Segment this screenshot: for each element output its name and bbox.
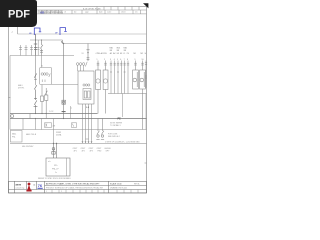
lower horizontal rail bbox=[10, 129, 147, 131]
branch feeder b3 bbox=[117, 61, 119, 94]
svg-text:4P2: 4P2 bbox=[82, 150, 85, 152]
svg-text:3W: 3W bbox=[124, 50, 127, 52]
right feeder labels bbox=[96, 47, 147, 61]
svg-text:DRAWING NO E-401: DRAWING NO E-401 bbox=[110, 186, 127, 189]
junction box JB2 bbox=[72, 123, 77, 128]
svg-text:rev: rev bbox=[135, 12, 138, 14]
switch S0 on column M1 bbox=[34, 73, 37, 79]
frame tick right bbox=[145, 162, 147, 164]
svg-text:4TH FL: 4TH FL bbox=[18, 88, 24, 90]
svg-text:2: 2 bbox=[104, 59, 105, 61]
bus C (right secondary) bbox=[63, 43, 147, 45]
main feeder column M1 bbox=[34, 34, 37, 56]
svg-text:45kVA: 45kVA bbox=[56, 134, 62, 137]
switch S1 on column M1 bbox=[34, 85, 38, 113]
sheet frame bbox=[9, 7, 147, 194]
svg-text:REV A: REV A bbox=[134, 182, 140, 185]
svg-text:M2: M2 bbox=[141, 53, 143, 55]
feeder column M2 with switch bbox=[40, 40, 43, 56]
branch feeder b5 bbox=[123, 61, 125, 94]
svg-text:M1: M1 bbox=[134, 53, 136, 55]
svg-text:P4: P4 bbox=[127, 53, 129, 55]
svg-text:480-120/208V: 480-120/208V bbox=[22, 146, 34, 148]
meter on riser R1 bbox=[62, 100, 66, 104]
top-left incoming stub bbox=[17, 26, 19, 34]
transformer T1 box bbox=[40, 56, 52, 85]
P2 output wires bbox=[83, 104, 92, 143]
riser drops bbox=[23, 114, 54, 144]
fuse FU2 bbox=[45, 88, 48, 114]
panel LP box bbox=[46, 158, 70, 176]
svg-text:A 1B LEVEL PLAN: A 1B LEVEL PLAN bbox=[83, 7, 101, 10]
svg-text:3Ph: 3Ph bbox=[54, 165, 57, 167]
svg-text:MA-1 PNL-B: MA-1 PNL-B bbox=[26, 133, 37, 136]
wire M1 vertical bbox=[35, 56, 37, 86]
svg-text:ch: ch bbox=[64, 12, 66, 14]
panel enclosure top edge bbox=[10, 55, 74, 57]
bus B (left secondary) bbox=[30, 39, 63, 41]
svg-text:amre: amre bbox=[16, 185, 22, 187]
svg-text:PDF: PDF bbox=[8, 9, 30, 21]
motor feeder MC1 bbox=[96, 61, 101, 114]
bus N bbox=[10, 113, 98, 115]
svg-text:T1: T1 bbox=[41, 66, 43, 68]
bottom long wire bbox=[10, 143, 147, 145]
feeder stub F3 bbox=[30, 45, 33, 56]
svg-text:PE: PE bbox=[118, 118, 122, 121]
svg-text:SEE DWG E-2: SEE DWG E-2 bbox=[108, 136, 120, 138]
ground device G2 bbox=[101, 119, 104, 140]
meter on left edge bbox=[11, 115, 14, 118]
wire T1 to T2 bbox=[52, 84, 79, 86]
svg-text:PNL: PNL bbox=[12, 137, 16, 139]
far right stub bbox=[145, 61, 147, 89]
svg-text:4 PNL-A1 3PH: 4 PNL-A1 3PH bbox=[96, 52, 108, 55]
svg-text:SCALE 1:100: SCALE 1:100 bbox=[110, 182, 121, 185]
breaker CB1 (blue) bbox=[34, 28, 41, 35]
svg-text:2: 2 bbox=[61, 191, 62, 193]
PDF badge bbox=[0, 0, 37, 27]
svg-text:a b: a b bbox=[48, 161, 51, 163]
feeder stub F2 bbox=[25, 45, 28, 56]
left panel box PB1 bbox=[10, 131, 22, 143]
svg-text:AB: AB bbox=[40, 10, 44, 14]
bus A (main top bus) bbox=[18, 33, 147, 35]
junction dots bbox=[35, 113, 64, 119]
svg-text:76: 76 bbox=[38, 183, 43, 188]
ground device G1 bbox=[96, 119, 99, 140]
transformer T2 primary column bbox=[86, 44, 89, 62]
svg-text:consult eng: consult eng bbox=[16, 187, 25, 190]
svg-text:REFER TO SPEC DIV 16 FOR DETAI: REFER TO SPEC DIV 16 FOR DETAILS bbox=[38, 177, 71, 180]
feeder stub F1 bbox=[19, 45, 22, 56]
svg-text:PNL-LP: PNL-LP bbox=[52, 168, 59, 170]
corner wedge bbox=[143, 3, 148, 8]
junction dots bus B bbox=[35, 39, 36, 40]
header band bbox=[9, 7, 147, 14]
svg-text:TO DETAIL 3: TO DETAIL 3 bbox=[110, 124, 121, 127]
svg-text:MA-1: MA-1 bbox=[18, 84, 23, 87]
svg-text:EF: EF bbox=[117, 53, 119, 55]
branch feeder b1 bbox=[110, 61, 112, 94]
svg-text:sk: sk bbox=[33, 185, 35, 187]
aux drop bbox=[70, 106, 72, 119]
T2 winding bbox=[76, 62, 87, 71]
svg-text:1c: 1c bbox=[55, 172, 57, 174]
breaker CB2 (blue) bbox=[60, 28, 67, 35]
svg-text:3W: 3W bbox=[110, 50, 113, 52]
svg-text:appr: appr bbox=[85, 12, 89, 14]
motor feeder MC3 bbox=[133, 61, 139, 90]
svg-text:MA-1: MA-1 bbox=[12, 133, 16, 136]
junction box JB1 bbox=[45, 123, 52, 128]
svg-text:EF: EF bbox=[120, 53, 122, 55]
svg-text:3W: 3W bbox=[117, 50, 120, 52]
svg-text:date: date bbox=[99, 11, 103, 14]
svg-text:S1: S1 bbox=[82, 53, 84, 55]
feeder column M1b bbox=[37, 40, 40, 56]
svg-text:4P3: 4P3 bbox=[90, 150, 93, 152]
title block bbox=[9, 181, 147, 193]
motor feeder MC2 bbox=[103, 61, 108, 114]
svg-text:4P1: 4P1 bbox=[74, 150, 77, 152]
svg-text:AB PROJECT NAME - LEVEL 1 THE: AB PROJECT NAME - LEVEL 1 THE ELECTRICAL… bbox=[46, 182, 100, 185]
svg-text:L1: L1 bbox=[123, 53, 125, 55]
svg-text:1: 1 bbox=[97, 59, 98, 61]
branch feeder b6 bbox=[127, 61, 129, 94]
svg-text:scale: scale bbox=[107, 12, 111, 14]
branch feeder b4 bbox=[120, 61, 122, 94]
svg-text:PROJECT SCHEDULE OF LOADS, THE: PROJECT SCHEDULE OF LOADS, THE BUILDING … bbox=[46, 186, 103, 189]
collector rail bbox=[108, 93, 147, 95]
motor feeder MC4 bbox=[140, 61, 146, 130]
transformer T3 drop bbox=[52, 144, 57, 159]
branch feeder b2 bbox=[114, 61, 116, 94]
T1 winding bbox=[41, 73, 50, 82]
panel enclosure left edge bbox=[9, 56, 11, 130]
svg-text:2-#12: 2-#12 bbox=[49, 111, 53, 113]
fuse FU1 bbox=[40, 85, 43, 114]
feeder riser R1 bbox=[63, 44, 65, 119]
svg-text:sheet: sheet bbox=[121, 11, 126, 14]
svg-text:4W: 4W bbox=[53, 126, 56, 128]
panel P2 box bbox=[78, 71, 94, 104]
bus PE bbox=[10, 118, 147, 120]
red logo bbox=[26, 183, 31, 192]
svg-text:1: 1 bbox=[46, 191, 47, 193]
